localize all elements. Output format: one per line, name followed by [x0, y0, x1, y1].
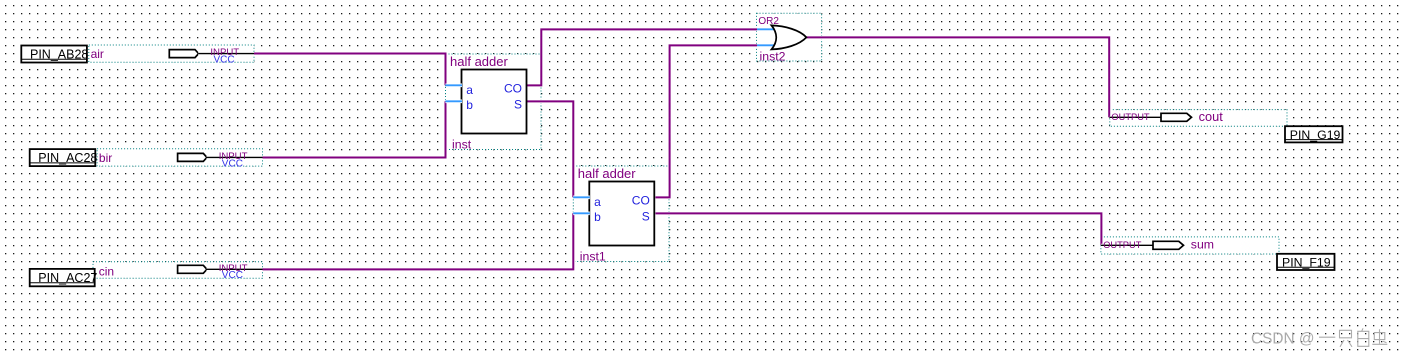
wire bir to half adder b — [263, 101, 446, 157]
output symbol sum (line, arrow, OUTPUT) — [1101, 240, 1184, 250]
input symbol air (arrow, INPUT VCC) — [169, 47, 254, 66]
svg-text:PIN_F19: PIN_F19 — [1282, 255, 1331, 269]
svg-text:b: b — [466, 98, 473, 112]
node label sum — [1191, 238, 1214, 252]
input pin PIN_AB28 box — [21, 46, 88, 63]
svg-text:cin: cin — [99, 265, 114, 279]
svg-text:PIN_G19: PIN_G19 — [1290, 128, 1341, 142]
svg-text:PIN_AC27: PIN_AC27 — [38, 271, 97, 285]
svg-text:inst1: inst1 — [580, 250, 606, 264]
selection box half adder inst1 — [573, 166, 669, 262]
svg-text:sum: sum — [1191, 238, 1214, 252]
input symbol cin (arrow, INPUT VCC) — [178, 263, 263, 281]
wire half adder CO to OR2 top input — [527, 29, 758, 85]
svg-text:cout: cout — [1199, 109, 1224, 124]
svg-text:half adder: half adder — [578, 166, 636, 181]
wire half adder inst1 S to sum — [656, 213, 1102, 245]
node label air — [91, 47, 104, 61]
svg-text:CSDN @: CSDN @ — [1251, 331, 1315, 348]
selection box input pin air — [89, 45, 254, 62]
wire cin to half adder inst1 b — [263, 213, 574, 269]
wire air to half adder a — [254, 54, 446, 86]
wire half adder S to half adder inst1 a — [527, 101, 574, 197]
half adder inst1 (U2) — [573, 166, 654, 264]
svg-text:inst2: inst2 — [760, 50, 786, 64]
svg-text:VCC: VCC — [222, 158, 243, 169]
selection box output pin sum — [1101, 237, 1279, 254]
watermark chinese glyphs — [1319, 328, 1387, 347]
output pin PIN_G19 box — [1285, 126, 1343, 142]
watermark CSDN — [1251, 331, 1315, 348]
svg-text:CO: CO — [504, 82, 522, 96]
svg-text:air: air — [91, 47, 104, 61]
node label cin — [99, 265, 114, 279]
selection box half adder inst — [446, 54, 542, 150]
svg-text:OUTPUT: OUTPUT — [1103, 240, 1142, 250]
selection box input pin cin — [93, 262, 263, 279]
svg-text:VCC: VCC — [214, 54, 235, 65]
input pin PIN_AC28 box — [30, 149, 98, 166]
wire OR2 output to cout — [806, 37, 1109, 117]
svg-text:inst: inst — [452, 138, 472, 152]
svg-text:CO: CO — [632, 194, 650, 208]
output pin PIN_F19 box — [1277, 254, 1335, 270]
selection box output pin cout — [1110, 110, 1287, 127]
svg-text:a: a — [594, 195, 601, 209]
svg-text:half adder: half adder — [450, 54, 508, 69]
svg-text:OUTPUT: OUTPUT — [1111, 112, 1150, 122]
svg-text:S: S — [514, 97, 522, 111]
input pin PIN_AC27 box — [30, 269, 98, 286]
output symbol cout (line, arrow, OUTPUT) — [1110, 112, 1192, 122]
svg-text:bir: bir — [99, 151, 112, 165]
OR gate inst2 (OR2) — [757, 16, 806, 64]
wire half adder inst1 CO to OR2 bottom input — [656, 45, 758, 197]
svg-text:S: S — [642, 209, 650, 223]
svg-text:VCC: VCC — [222, 270, 243, 281]
svg-text:PIN_AB28: PIN_AB28 — [30, 48, 88, 62]
selection box input pin bir — [97, 149, 262, 166]
svg-text:PIN_AC28: PIN_AC28 — [38, 151, 97, 165]
half adder inst (U1) — [445, 54, 526, 152]
svg-text:a: a — [466, 83, 473, 97]
selection box OR2 inst2 — [757, 13, 822, 61]
node label bir — [99, 151, 112, 165]
svg-text:b: b — [594, 210, 601, 224]
input symbol bir (arrow, INPUT VCC) — [178, 151, 263, 169]
node label cout — [1199, 109, 1224, 124]
